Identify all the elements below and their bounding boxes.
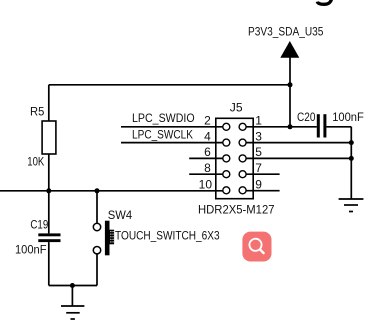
wire: pin4 net LPC_SWCLK bbox=[121, 142, 226, 144]
svg-text:LPC_SWDIO: LPC_SWDIO bbox=[132, 111, 195, 125]
svg-text:C20: C20 bbox=[297, 112, 315, 124]
svg-text:6: 6 bbox=[204, 145, 211, 159]
svg-text:8: 8 bbox=[204, 161, 211, 175]
svg-text:C19: C19 bbox=[30, 219, 48, 231]
SW4 actuator bar bbox=[105, 221, 110, 256]
connector J5 body bbox=[216, 118, 253, 198]
svg-text:4: 4 bbox=[204, 129, 211, 143]
heading glyph g (bottom of large letter, cut off at top) bbox=[317, 0, 332, 4]
wire: bottom between C19 and SW4 bbox=[49, 285, 97, 287]
wire: pin9 stub bbox=[243, 190, 280, 192]
zoom icon bbox=[242, 232, 271, 262]
node junction pin5 / rail bbox=[349, 156, 354, 161]
svg-text:1: 1 bbox=[255, 114, 262, 128]
capacitor C19 bbox=[48, 191, 50, 234]
wire: pin5 to ground rail bbox=[243, 157, 352, 159]
wire: pin3 to ground rail bbox=[243, 142, 352, 144]
wire: pin6 stub bbox=[189, 157, 226, 159]
svg-text:3: 3 bbox=[255, 129, 262, 143]
capacitor C20 bbox=[317, 114, 320, 137]
svg-text:2: 2 bbox=[204, 114, 211, 128]
node junction pin1 / power stem bbox=[288, 124, 293, 129]
node junction bus / SW4 bbox=[95, 188, 100, 193]
svg-text:P3V3_SDA_U35: P3V3_SDA_U35 bbox=[248, 24, 324, 38]
wire: R5 top to power stem bbox=[49, 84, 291, 86]
svg-text:100nF: 100nF bbox=[15, 244, 47, 256]
wire: pin2 net LPC_SWDIO bbox=[121, 126, 226, 128]
power symbol arrow P3V3_SDA_U35 bbox=[280, 41, 299, 58]
node junction bus / R5-C19 bbox=[46, 188, 51, 193]
svg-text:LPC_SWCLK: LPC_SWCLK bbox=[132, 128, 193, 142]
wire: pin7 stub bbox=[243, 173, 280, 175]
wire: pin8 stub bbox=[189, 173, 226, 175]
wire: pin1 to C20 bbox=[243, 126, 317, 128]
node junction at power stem / R5 wire bbox=[288, 82, 293, 87]
wire: main bus to header pin 10 bbox=[0, 190, 226, 192]
ground (right) bbox=[339, 199, 364, 212]
wire: C20 right to ground rail bbox=[326, 126, 351, 128]
switch SW4 bbox=[96, 191, 98, 224]
connector J5 pin circles bbox=[223, 123, 246, 194]
wire: power stem down to pin1 net bbox=[289, 50, 291, 127]
wire: ground rail vertical bbox=[350, 127, 352, 199]
svg-text:SW4: SW4 bbox=[108, 208, 133, 222]
node junction bottom / ground bbox=[70, 283, 75, 288]
svg-text:5: 5 bbox=[255, 145, 262, 159]
svg-text:HDR2X5-M127: HDR2X5-M127 bbox=[198, 203, 275, 217]
svg-text:R5: R5 bbox=[30, 106, 44, 118]
ground (left) bbox=[61, 286, 84, 320]
svg-text:9: 9 bbox=[255, 178, 262, 192]
svg-text:10: 10 bbox=[199, 178, 213, 192]
svg-text:10K: 10K bbox=[27, 157, 44, 169]
svg-text:J5: J5 bbox=[230, 101, 243, 115]
resistor R5 bbox=[48, 85, 50, 121]
node junction pin3 / rail bbox=[349, 140, 354, 145]
SW4 touch pad (dotted block) bbox=[110, 230, 115, 245]
svg-text:7: 7 bbox=[255, 161, 262, 175]
svg-text:100nF: 100nF bbox=[332, 112, 364, 124]
svg-text:TOUCH_SWITCH_6X3: TOUCH_SWITCH_6X3 bbox=[115, 231, 220, 243]
